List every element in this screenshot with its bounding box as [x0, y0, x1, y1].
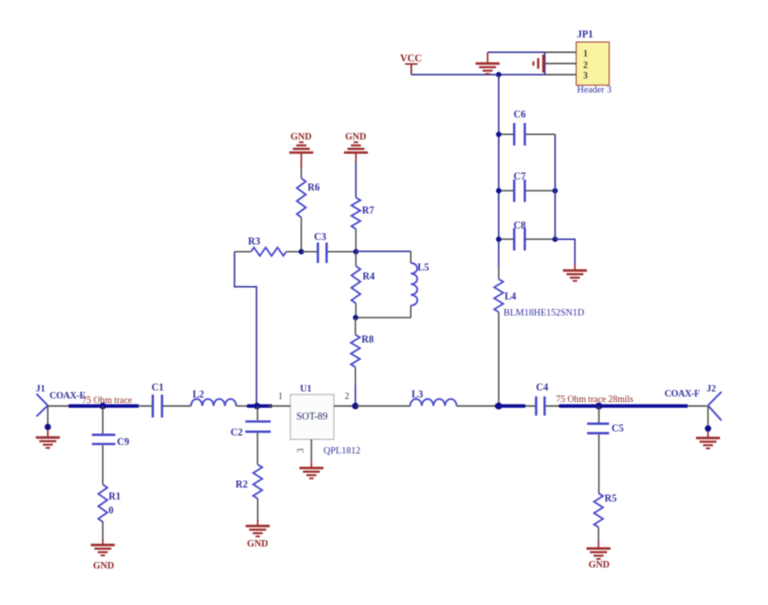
svg-text:2: 2	[345, 391, 350, 401]
wire decoupling bus vertical	[498, 75, 500, 266]
svg-text:75 Ohm trace 28mils: 75 Ohm trace 28mils	[556, 394, 634, 404]
capacitor C4	[525, 383, 559, 416]
junction C9 tap	[100, 403, 107, 410]
wire C8 to ground	[555, 239, 575, 264]
connector J2	[665, 385, 722, 421]
wire L5 bottom to R4 bottom	[356, 317, 411, 319]
svg-text:2: 2	[583, 60, 588, 70]
wire J1 to input trace	[48, 405, 69, 407]
svg-text:COAX-F: COAX-F	[665, 390, 701, 400]
svg-text:GND: GND	[247, 540, 268, 550]
capacitor C8	[499, 221, 555, 251]
svg-text:C4: C4	[536, 383, 548, 394]
svg-text:C7: C7	[514, 172, 526, 183]
junction base node	[254, 403, 261, 410]
JP1 pin 3	[545, 71, 588, 81]
U1 pin 1	[268, 391, 290, 406]
wire R3 feedback to base node	[235, 252, 257, 406]
svg-text:C5: C5	[612, 424, 624, 435]
resistor R1	[98, 485, 120, 539]
svg-text:C3: C3	[314, 232, 326, 243]
ground J1	[36, 429, 60, 448]
JP1 pin 2	[545, 60, 588, 70]
svg-text:C6: C6	[514, 110, 526, 121]
svg-text:L3: L3	[412, 390, 424, 401]
wire J2 down	[707, 406, 709, 427]
resistor R7	[351, 162, 374, 252]
resistor R8	[351, 318, 374, 385]
wire thick input trace	[69, 404, 139, 408]
svg-text:GND: GND	[588, 561, 609, 571]
resistor R2	[236, 465, 263, 520]
JP1 pin 1	[545, 49, 588, 59]
connector J1	[36, 385, 86, 417]
junction dot J1	[45, 424, 51, 430]
svg-text:0: 0	[109, 506, 114, 517]
wire top gnd to header pin 1	[488, 51, 545, 53]
capacitor C1	[139, 383, 191, 418]
resistor R5	[594, 493, 617, 541]
svg-text:1: 1	[583, 49, 588, 59]
wire collector to L3	[355, 405, 410, 407]
svg-text:J2: J2	[707, 385, 717, 395]
capacitor C9	[92, 406, 129, 485]
junction C5 tap	[595, 403, 602, 410]
resistor R4	[351, 252, 374, 318]
svg-text:75 Ohm trace: 75 Ohm trace	[82, 395, 132, 405]
wire thick base node	[247, 404, 272, 408]
wire thick output trace	[559, 404, 688, 408]
connector JP1	[576, 30, 612, 96]
ground R1	[91, 539, 115, 572]
svg-text:R7: R7	[362, 206, 374, 217]
svg-text:VCC: VCC	[400, 54, 422, 65]
svg-text:QPL1812: QPL1812	[324, 447, 361, 457]
svg-text:GND: GND	[345, 133, 366, 143]
svg-text:3: 3	[296, 448, 306, 453]
junction C3/R7/R4/L5	[353, 249, 358, 254]
svg-text:J1: J1	[36, 385, 46, 395]
power port GND above R7	[344, 133, 368, 163]
junction C7 right	[552, 188, 557, 193]
resistor R6	[297, 168, 320, 252]
wire L2 to base node	[236, 405, 247, 407]
wire J1 down	[47, 406, 49, 425]
wire VCC node to header pin 3	[411, 74, 545, 76]
transistor U1	[290, 385, 360, 457]
svg-text:R2: R2	[236, 480, 248, 491]
ground rotated at header pin 2	[533, 55, 545, 73]
svg-text:R6: R6	[308, 183, 320, 194]
svg-text:R5: R5	[605, 494, 617, 505]
wire L4 to output rail	[498, 312, 500, 406]
svg-text:3: 3	[583, 71, 588, 81]
resistor R3	[235, 237, 302, 256]
wire right capacitor bus	[554, 134, 556, 239]
junction R4/L5/R8	[353, 315, 358, 320]
svg-text:R8: R8	[362, 335, 374, 346]
inductor L2	[191, 390, 236, 407]
capacitor C6	[499, 110, 555, 146]
junction C8 left	[496, 237, 501, 242]
svg-text:U1: U1	[300, 385, 312, 395]
svg-text:SOT-89: SOT-89	[296, 412, 327, 423]
U1 pin 3	[296, 439, 312, 462]
svg-text:C9: C9	[117, 437, 129, 448]
capacitor C5	[587, 406, 624, 493]
ground R5	[587, 542, 611, 571]
svg-text:C1: C1	[152, 383, 164, 394]
svg-text:L5: L5	[418, 263, 430, 274]
ferrite bead L4	[494, 266, 584, 319]
inductor L5	[411, 251, 429, 317]
capacitor C3	[301, 232, 356, 263]
junction C8 right	[552, 237, 557, 242]
svg-text:R3: R3	[248, 237, 260, 248]
junction R6/R3/C3	[299, 249, 304, 254]
power port VCC	[400, 54, 422, 75]
svg-text:Header 3: Header 3	[577, 86, 612, 96]
junction dot J2	[705, 425, 711, 431]
svg-text:COAX-E: COAX-E	[50, 392, 86, 402]
svg-text:BLM18HE152SN1D: BLM18HE152SN1D	[504, 309, 585, 319]
ground top (below pin1 wire)	[476, 52, 500, 74]
svg-text:C8: C8	[514, 221, 526, 232]
wire L3 to output node	[457, 405, 495, 407]
svg-text:GND: GND	[290, 133, 311, 143]
wire output trace to J2	[688, 405, 707, 407]
ground U1 pin 3	[299, 462, 323, 479]
capacitor C2	[231, 406, 271, 465]
svg-text:R4: R4	[363, 272, 375, 283]
junction output node	[495, 403, 502, 410]
ground J2	[696, 431, 720, 448]
svg-text:L2: L2	[193, 390, 205, 401]
svg-text:C2: C2	[231, 428, 243, 439]
wire header pin1 to pin3 vertical	[544, 52, 546, 74]
inductor L3	[410, 390, 456, 407]
svg-text:1: 1	[278, 391, 283, 401]
ground capacitor bus	[563, 265, 587, 281]
junction VCC rail	[496, 72, 501, 77]
svg-text:GND: GND	[93, 562, 114, 572]
ground R2	[246, 520, 270, 550]
power port GND above R6	[289, 133, 313, 169]
junction C7 left	[496, 188, 501, 193]
wire R8 to collector node	[354, 384, 356, 406]
wire thick output node	[495, 404, 525, 408]
capacitor C7	[499, 172, 555, 203]
junction collector node	[352, 403, 359, 410]
svg-text:L4: L4	[505, 292, 517, 303]
junction C6 left	[496, 132, 501, 137]
svg-text:R1: R1	[109, 492, 121, 503]
U1 pin 2	[334, 391, 356, 406]
svg-text:JP1: JP1	[577, 30, 593, 41]
wire node to L5 top	[356, 250, 411, 252]
